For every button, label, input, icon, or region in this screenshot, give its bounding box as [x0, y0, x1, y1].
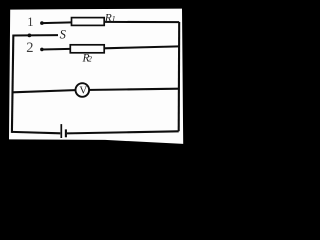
svg-text:1: 1 — [112, 14, 116, 23]
resistor R2 — [70, 45, 104, 53]
svg-text:S: S — [60, 28, 67, 42]
wire: left vertical — [12, 35, 13, 133]
battery short plate — [65, 129, 67, 137]
black photo background — [0, 0, 210, 192]
voltmeter U1 circle — [76, 83, 90, 97]
wire: second branch (terminal 2 to right rail) — [42, 46, 179, 49]
node: switch pivot dot — [28, 34, 32, 38]
white paper area — [9, 9, 183, 144]
wire: right vertical rail — [178, 22, 181, 131]
svg-text:2: 2 — [26, 40, 33, 56]
battery long plate — [60, 124, 62, 138]
svg-text:2: 2 — [88, 55, 92, 64]
resistor R1 — [72, 18, 105, 26]
svg-text:V: V — [79, 84, 87, 96]
wire: top branch (terminal 1 to right rail) — [42, 22, 179, 23]
wire: switch S arm — [13, 34, 59, 36]
wire: battery to bottom right — [67, 131, 179, 133]
node: terminal 1 dot — [40, 21, 44, 25]
wire: voltmeter row — [13, 89, 179, 93]
node: terminal 2 dot — [40, 48, 44, 52]
wire: bottom left to battery — [12, 132, 60, 133]
svg-text:1: 1 — [27, 15, 33, 29]
